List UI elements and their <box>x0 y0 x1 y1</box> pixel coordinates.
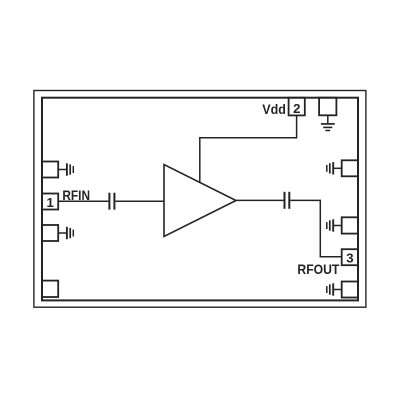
svg-text:2: 2 <box>293 101 300 116</box>
svg-text:1: 1 <box>47 195 54 210</box>
pad mid-left bypass <box>42 225 58 241</box>
pad mid-right bypass <box>342 217 358 233</box>
wire input to amp <box>115 200 164 202</box>
package outline <box>34 91 366 308</box>
label RFIN <box>62 187 90 203</box>
svg-text:3: 3 <box>346 250 353 265</box>
pad bottom-left <box>42 281 58 297</box>
capacitor C2 output DC block <box>285 192 290 209</box>
wire input from pad 1 <box>58 200 108 202</box>
pad top-left bypass <box>42 162 58 178</box>
capacitor to ground bottom-right <box>327 283 342 295</box>
capacitor C1 input DC block <box>109 193 114 210</box>
capacitor to ground top-left <box>58 163 73 175</box>
capacitor to ground top-right <box>327 162 342 174</box>
svg-text:RFOUT: RFOUT <box>297 261 339 277</box>
pad bottom-right bypass <box>342 282 358 298</box>
pad 3 RFOUT <box>342 249 358 265</box>
wire Vdd supply to amp <box>200 115 297 182</box>
label Vdd <box>262 101 286 117</box>
label RFOUT <box>297 261 339 277</box>
pad 1 RFIN <box>42 194 58 210</box>
pad top-right bypass <box>342 160 358 176</box>
capacitor to ground mid-right <box>327 219 342 231</box>
svg-text:Vdd: Vdd <box>262 101 286 117</box>
die outline <box>42 98 358 301</box>
svg-text:RFIN: RFIN <box>62 187 90 203</box>
op-amp U1 amplifier <box>164 165 236 237</box>
wire output from amp <box>236 199 284 201</box>
wire output to pad 3 <box>290 200 341 256</box>
ground <box>321 115 335 130</box>
capacitor to ground mid-left <box>58 227 73 239</box>
pad 2 Vdd <box>289 98 305 116</box>
ground pad top <box>319 98 336 116</box>
